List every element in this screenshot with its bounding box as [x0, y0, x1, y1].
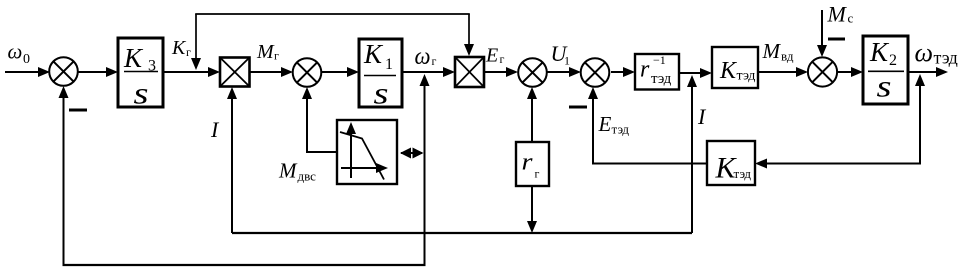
svg-text:s: s	[374, 76, 389, 111]
node Mdvs label	[278, 159, 316, 184]
junction: omega_g feedback pickoff arrow into wire	[420, 74, 430, 86]
svg-text:−1: −1	[653, 53, 666, 67]
junction: omega_ted feedback pickoff arrow into wire	[915, 74, 925, 86]
node Eg label	[485, 45, 505, 67]
wire: omega0 input into summer S1	[5, 67, 50, 77]
svg-text:вд: вд	[781, 49, 794, 64]
wire: Mdvs block output up into S2	[302, 87, 338, 153]
wire: M2 to summer S3	[484, 67, 518, 77]
wire: S2 to block K1/s	[321, 67, 359, 77]
block K2/s	[863, 36, 908, 104]
svg-text:0: 0	[23, 52, 30, 67]
svg-text:ω: ω	[8, 40, 23, 64]
svg-text:K: K	[171, 37, 187, 59]
wire: K1/s to multiplier M2	[402, 67, 455, 77]
svg-text:K: K	[869, 37, 890, 67]
wire: bottom feedback horizontal line	[63, 264, 426, 266]
svg-text:г: г	[432, 54, 437, 68]
wire: rg block down onto current line	[527, 186, 537, 233]
node omega_ted output label	[915, 38, 958, 68]
multiplier M1	[220, 58, 250, 87]
svg-text:M: M	[278, 159, 298, 183]
block Kted feedback	[707, 141, 755, 185]
svg-text:г: г	[274, 49, 279, 63]
wire: omega_g feedback vertical down	[424, 85, 426, 265]
svg-text:г: г	[500, 52, 505, 66]
svg-text:M: M	[256, 41, 275, 63]
summing junction S5	[808, 57, 837, 86]
node U1 label	[551, 41, 571, 68]
wire: M1 to summer S2	[250, 67, 294, 77]
block K3/s	[118, 38, 163, 111]
wire: top line down into multiplier M2	[464, 14, 474, 56]
svg-text:s: s	[877, 69, 892, 104]
svg-text:2: 2	[889, 52, 897, 69]
wire: rg block up into S3	[527, 87, 537, 143]
node Mg label	[256, 41, 279, 63]
wire: r^-1 to block Kteд forward	[679, 68, 712, 78]
wire: omega_ted feedback down	[919, 77, 921, 165]
wire: bottom feedback up into S1	[59, 86, 69, 265]
summing junction S4	[581, 58, 610, 87]
node omega_g label	[415, 44, 437, 70]
svg-text:тэд: тэд	[734, 166, 752, 181]
node omega0 input label	[8, 40, 31, 68]
junction: current I pickoff arrow into wire	[687, 75, 697, 87]
svg-text:тэд: тэд	[651, 71, 672, 87]
wire: S4 to block r^-1	[611, 67, 635, 77]
svg-text:M: M	[827, 2, 848, 27]
svg-text:M: M	[762, 39, 782, 63]
block K1/s	[359, 39, 402, 111]
wire: current I horizontal line	[232, 232, 692, 234]
svg-text:s: s	[134, 76, 149, 111]
multiplier M2	[455, 57, 484, 87]
wire: current line up into multiplier M1	[227, 87, 237, 233]
minus sign at S4 feedback input	[569, 106, 587, 109]
svg-text:1: 1	[385, 56, 393, 73]
block Kted forward	[712, 47, 758, 88]
wire: top feedforward horizontal line	[195, 13, 470, 15]
block Mdvs nonlinear characteristic	[337, 120, 397, 184]
svg-text:ω: ω	[415, 44, 431, 70]
wire: S3 to summer S4	[547, 67, 581, 77]
node Eted label	[598, 112, 630, 137]
wire: K3/s to multiplier M1	[163, 67, 220, 77]
svg-text:E: E	[598, 112, 612, 136]
node Mvd label	[762, 39, 794, 64]
svg-text:r: r	[640, 57, 650, 83]
svg-text:тэд: тэд	[612, 122, 630, 137]
wire: Eted from Kted fb block to S4	[588, 87, 707, 165]
svg-text:1: 1	[564, 54, 570, 68]
svg-text:ω: ω	[915, 38, 934, 67]
wire: S1 to block K3/s	[78, 67, 119, 77]
bidirectional link Mdvs block to omega_g line	[400, 148, 424, 159]
svg-text:тэд: тэд	[934, 48, 958, 68]
wire: feedback into Kted fb block	[755, 159, 919, 169]
svg-text:K: K	[719, 58, 738, 84]
svg-text:K: K	[363, 39, 384, 69]
svg-text:E: E	[485, 45, 498, 67]
block r^-1 тэд	[635, 53, 679, 90]
wire: current line up to main wire junction	[691, 86, 693, 233]
svg-text:r: r	[522, 150, 534, 176]
block rg	[516, 142, 549, 186]
svg-text:K: K	[123, 43, 144, 73]
svg-text:г: г	[535, 167, 540, 181]
node Kg label	[171, 37, 191, 59]
wire: Kted to summer S5	[758, 67, 808, 77]
wire: S5 to block K2/s	[837, 67, 863, 77]
wire: top feedforward line down-arrow onto Kg wire	[191, 14, 201, 70]
summing junction S1	[49, 57, 78, 86]
minus sign at Mc input	[828, 38, 845, 41]
svg-text:тэд: тэд	[737, 69, 756, 84]
node Mc load torque label	[827, 2, 854, 27]
svg-text:г: г	[186, 45, 191, 59]
wire: Mc into S5 from top	[817, 10, 827, 57]
svg-text:двс: двс	[298, 169, 317, 184]
wire: K2/s output omega_ted	[908, 67, 948, 77]
summing junction S3	[518, 58, 547, 87]
svg-text:с: с	[848, 11, 854, 26]
summing junction S2	[293, 58, 322, 87]
minus sign at S1 feedback input	[69, 109, 87, 112]
